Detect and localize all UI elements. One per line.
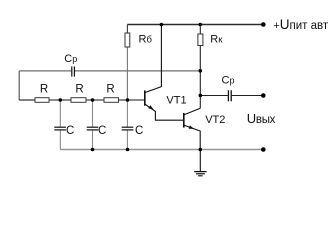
wire: feedback top wire left of Cp <box>19 70 71 72</box>
capacitor Cp2 output coupling <box>228 90 231 101</box>
terminal: output <box>261 93 266 98</box>
resistor R2 <box>71 98 86 103</box>
wire: C3 column upper stub <box>126 100 128 127</box>
node B: R2/R3/C2 junction <box>91 98 95 102</box>
node: output tap on collector line <box>199 94 203 98</box>
resistor R3 <box>104 98 119 103</box>
resistor Rk (collector load) <box>198 34 203 46</box>
svg-text:C: C <box>135 125 143 137</box>
wire: C1 column upper stub <box>59 100 61 127</box>
svg-text:R: R <box>106 84 114 96</box>
wire: Rb top stub from supply rail <box>126 25 128 34</box>
node C: R3/Rb/C3/VT1 base junction <box>126 98 130 102</box>
wire: R3 to VT1 base through node C <box>119 99 145 101</box>
wire: R1 to R2 through node A <box>49 99 71 101</box>
terminal: +U supply <box>261 22 266 27</box>
wire: left vertical from feedback wire to RC ladder input <box>18 71 20 100</box>
transistor VT1 <box>145 25 184 121</box>
wire: Rb bottom lead down to VT1 base node <box>126 47 128 100</box>
node A: R1/R2/C1 junction <box>59 98 63 102</box>
svg-text:C: C <box>98 125 106 137</box>
node: C2 on bottom rail <box>91 148 95 152</box>
svg-text:Uвых: Uвых <box>247 111 276 126</box>
svg-text:C: C <box>66 125 74 137</box>
svg-text:Cр: Cр <box>64 53 77 65</box>
node: Rk top on supply rail <box>199 23 203 27</box>
svg-text:Rб: Rб <box>139 33 153 45</box>
svg-text:+Uпит авт: +Uпит авт <box>273 17 329 32</box>
wire: C3 column lower stub <box>126 130 128 150</box>
wire: output wire left of Cp2 <box>200 95 228 97</box>
terminal: bottom rail <box>261 147 266 152</box>
svg-text:R: R <box>75 84 83 96</box>
wire: ground bottom rail <box>60 149 263 151</box>
svg-text:Cр: Cр <box>222 74 235 86</box>
resistor Rb (base bias) <box>125 33 130 47</box>
capacitor Cp1 feedback coupling <box>72 66 75 76</box>
node: feedback tap on collector line <box>199 69 203 73</box>
svg-text:VT2: VT2 <box>205 114 225 126</box>
svg-text:Rк: Rк <box>210 33 223 45</box>
wire: R2 to R3 through node B <box>86 99 104 101</box>
node: VT1 collector on supply rail <box>160 23 164 27</box>
wire: C2 column upper stub <box>92 100 94 127</box>
node: VT2 emitter / ground on bottom rail <box>199 148 203 152</box>
wire: output wire right of Cp2 to output terminal <box>232 95 263 97</box>
capacitor C1 <box>54 127 66 130</box>
svg-text:R: R <box>40 84 48 96</box>
transistor VT2 <box>184 108 201 149</box>
wire: ladder input horizontal to R1 <box>19 99 35 101</box>
wire: feedback top wire right of Cp to VT2 collector node <box>75 70 200 72</box>
wire: +U supply top rail <box>127 24 263 26</box>
wire: C2 column lower stub <box>92 130 94 150</box>
resistor R1 <box>35 98 49 103</box>
wire: C1 column lower stub <box>59 130 61 150</box>
node: C3 on bottom rail <box>126 148 130 152</box>
capacitor C3 <box>122 127 134 130</box>
svg-text:VT1: VT1 <box>166 94 186 106</box>
capacitor C2 <box>87 127 99 130</box>
ground <box>194 150 206 176</box>
wire: Rk collector vertical x=200 from rail to VT2 collector <box>199 25 201 109</box>
